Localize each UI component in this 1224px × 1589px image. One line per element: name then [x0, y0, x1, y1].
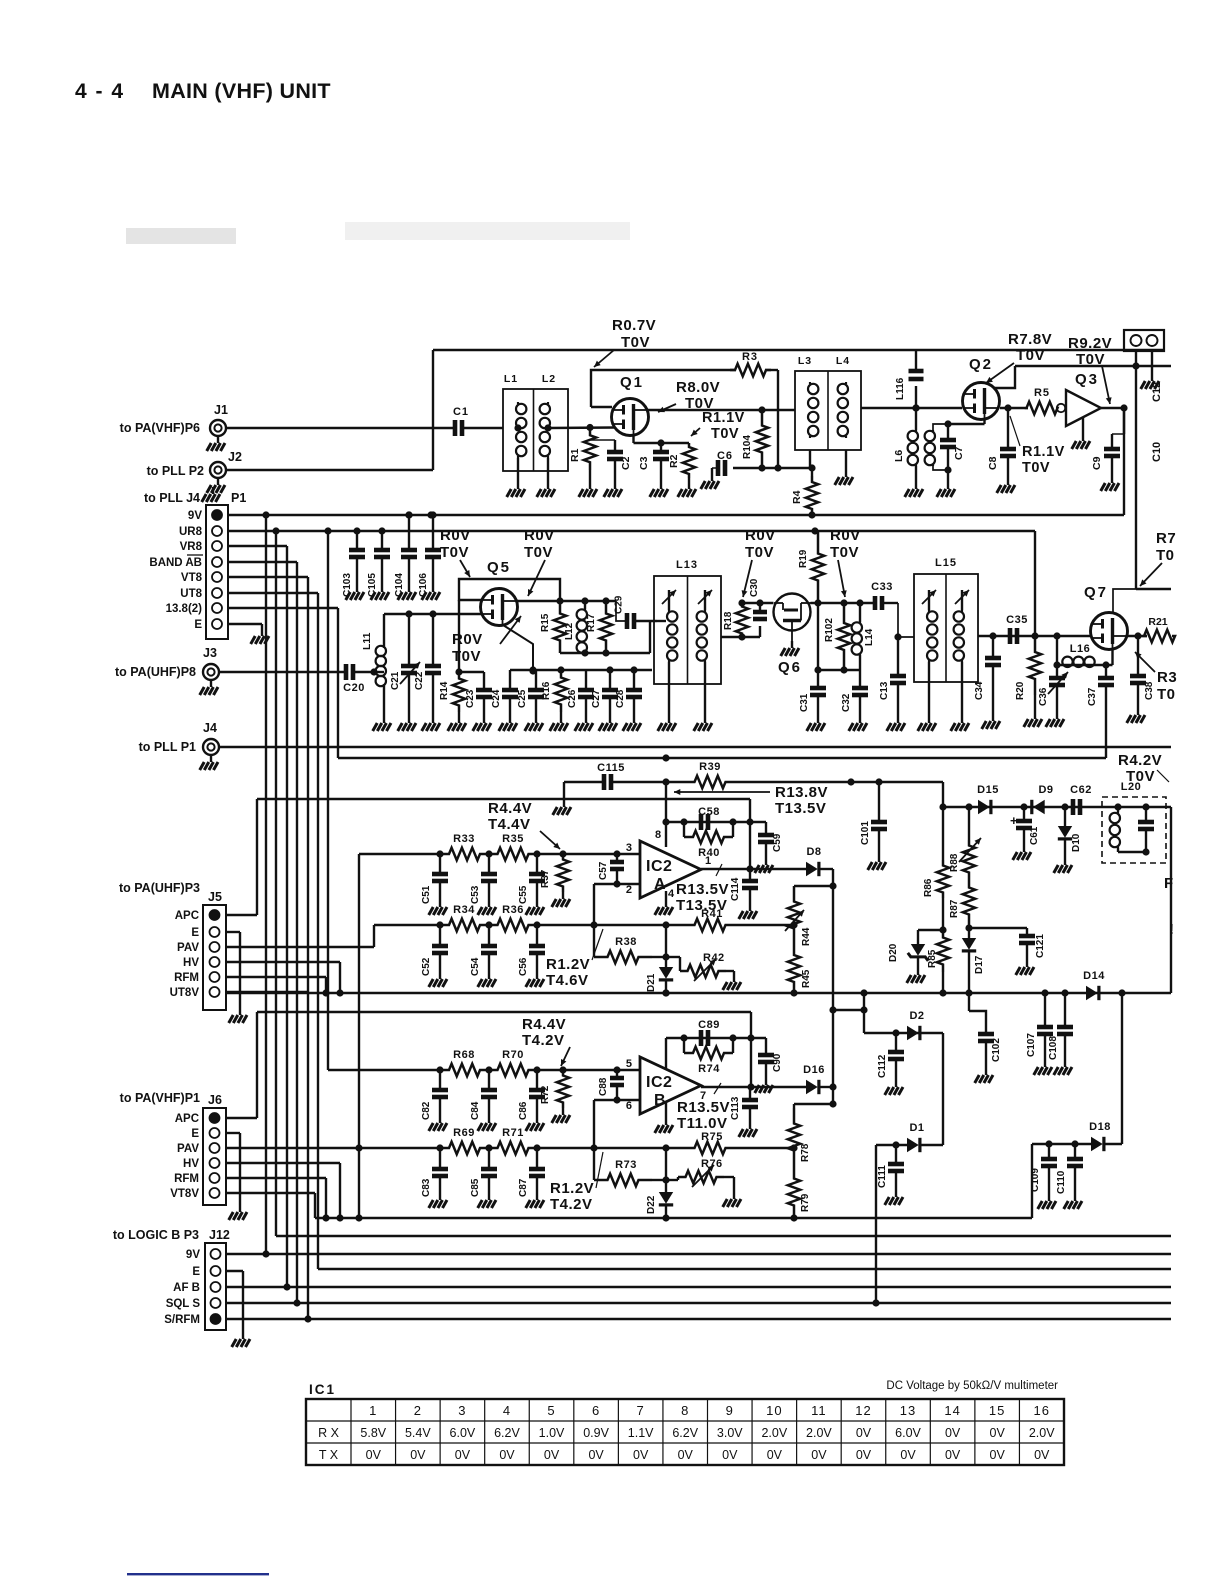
svg-text:J3: J3 [203, 646, 217, 660]
resistor R3 [730, 351, 771, 376]
svg-text:4: 4 [668, 888, 675, 900]
svg-text:6.0V: 6.0V [895, 1426, 921, 1440]
svg-text:L116: L116 [895, 377, 906, 400]
wire rail 782 [553, 782, 604, 815]
voltage label R0.7V [594, 317, 656, 367]
svg-text:C59: C59 [772, 833, 783, 852]
capacitor C115 [597, 762, 625, 790]
capacitor C27 [591, 670, 618, 731]
svg-text:D1: D1 [909, 1122, 924, 1134]
wire BANDAB [228, 561, 297, 563]
diode D21 [646, 921, 673, 996]
svg-text:C31: C31 [799, 693, 810, 712]
voltage label R13.8V [674, 784, 828, 817]
wire [432, 350, 434, 470]
J6 pin HV [183, 1158, 219, 1170]
P1 pin VR8 [180, 541, 222, 553]
svg-text:R34: R34 [453, 904, 475, 916]
svg-text:9: 9 [726, 1403, 734, 1418]
capacitor C37 [1087, 665, 1114, 758]
svg-text:to PA(VHF)P6: to PA(VHF)P6 [120, 421, 200, 435]
capacitor C61 [1010, 807, 1040, 860]
resistor R21 [1144, 616, 1175, 642]
svg-text:C103: C103 [342, 573, 353, 597]
svg-text:SQL S: SQL S [166, 1298, 201, 1310]
svg-text:J5: J5 [208, 890, 222, 904]
bus to IC2B [327, 531, 329, 1070]
wire [1031, 1144, 1033, 1218]
diode D15 [977, 784, 999, 814]
capacitor C3 [638, 443, 669, 497]
inductor L12 [564, 601, 587, 653]
connector P1 [144, 487, 246, 639]
wire Q7 gate2 [1113, 589, 1171, 613]
svg-text:AF B: AF B [173, 1282, 200, 1294]
resistor R39 [680, 761, 740, 788]
svg-text:2.0V: 2.0V [1029, 1426, 1055, 1440]
wire [740, 778, 943, 785]
svg-text:C101: C101 [860, 821, 871, 845]
svg-text:J6: J6 [208, 1093, 222, 1107]
buffer Q3 [1057, 371, 1101, 449]
wire J12 SQLS [226, 1299, 1171, 1306]
resistor R17 [586, 601, 612, 653]
svg-text:C105: C105 [367, 573, 378, 597]
capacitor C90 [755, 1038, 783, 1093]
wire IC2B in- [590, 1100, 640, 1180]
voltage label R7.8V [986, 331, 1052, 383]
svg-text:R39: R39 [699, 761, 721, 773]
svg-text:9V: 9V [188, 510, 202, 522]
capacitor C26 [567, 670, 594, 731]
svg-text:IC2: IC2 [646, 1074, 672, 1091]
svg-text:L14: L14 [864, 628, 875, 646]
wire Q7 source [1111, 648, 1113, 665]
svg-text:L11: L11 [361, 632, 373, 650]
svg-text:R37: R37 [540, 869, 551, 888]
wire rail 1218 [315, 1217, 1032, 1219]
capacitor C104 [394, 511, 417, 600]
zener D20 [888, 930, 943, 983]
svg-text:5: 5 [626, 1058, 632, 1070]
capacitor C102 [969, 993, 1002, 1083]
svg-text:T4.2V: T4.2V [522, 1032, 565, 1049]
wire [1000, 404, 1028, 411]
voltage label R4.4V A [488, 800, 560, 849]
capacitor C38 [1127, 636, 1155, 723]
J5 pin PAV [177, 942, 219, 954]
wire [863, 993, 865, 1033]
svg-text:C115: C115 [597, 762, 625, 774]
svg-text:R13.5V: R13.5V [677, 1099, 730, 1116]
wire IC2A pin4 gnd [655, 891, 673, 915]
svg-text:RFM: RFM [174, 972, 199, 984]
svg-text:C57: C57 [598, 861, 609, 880]
svg-text:R0V: R0V [524, 527, 555, 544]
wire rail 993 [226, 989, 1171, 996]
J5 pin RFM [174, 972, 219, 984]
svg-text:C82: C82 [421, 1101, 432, 1120]
bus line [276, 1235, 1171, 1237]
svg-text:D17: D17 [974, 955, 985, 974]
inductor L14 [852, 603, 875, 670]
wire J5 PAV [226, 946, 374, 948]
J12 pin 9V [186, 1249, 221, 1261]
svg-text:C107: C107 [1026, 1033, 1037, 1057]
wire [965, 924, 972, 938]
connector J12 [113, 1228, 230, 1330]
svg-text:3.0V: 3.0V [717, 1426, 743, 1440]
capacitor C113 [730, 1087, 758, 1137]
svg-text:L13: L13 [676, 559, 698, 571]
resistor R33 [440, 833, 489, 860]
svg-text:RFM: RFM [174, 1173, 199, 1185]
voltage label R0V b [524, 527, 555, 596]
svg-text:R42: R42 [703, 952, 725, 964]
svg-text:C7: C7 [953, 446, 965, 460]
wire APC rail B [257, 1012, 751, 1118]
svg-text:C83: C83 [421, 1178, 432, 1197]
diode D14 [1083, 970, 1105, 1000]
svg-text:E: E [191, 1128, 199, 1140]
svg-text:C23: C23 [465, 689, 476, 708]
table cells [318, 1403, 1055, 1462]
resistor R87 [949, 878, 975, 924]
svg-text:E: E [191, 927, 199, 939]
svg-text:R71: R71 [502, 1127, 524, 1139]
capacitor C9 [1091, 408, 1124, 491]
capacitor C20 [343, 664, 377, 694]
wire J5 E gnd [226, 932, 247, 1023]
transistor Q2 [963, 356, 1000, 420]
wire corner 782-807 [942, 782, 944, 807]
svg-text:13.8(2): 13.8(2) [166, 603, 203, 615]
svg-text:7: 7 [637, 1403, 645, 1418]
svg-text:C113: C113 [730, 1096, 741, 1120]
cut text excl [1169, 921, 1174, 938]
wire L16 net [1053, 636, 1112, 669]
svg-text:VR8: VR8 [180, 541, 203, 553]
svg-text:R74: R74 [698, 1063, 720, 1075]
svg-text:R14: R14 [439, 681, 450, 700]
capacitor C51 [421, 850, 448, 915]
svg-text:R69: R69 [453, 1127, 475, 1139]
svg-text:Q5: Q5 [487, 559, 511, 576]
svg-text:R45: R45 [801, 969, 812, 988]
svg-text:D22: D22 [646, 1195, 657, 1214]
svg-text:T4.4V: T4.4V [488, 816, 531, 833]
svg-text:to PA(UHF)P8: to PA(UHF)P8 [115, 665, 196, 679]
wire fb [662, 818, 766, 825]
voltage label R0V c [452, 616, 521, 665]
svg-text:DC Voltage by 50kΩ/V multimete: DC Voltage by 50kΩ/V multimeter [886, 1380, 1058, 1392]
svg-text:T4.6V: T4.6V [546, 972, 589, 989]
wire fb to out B [747, 1038, 754, 1091]
svg-text:2.0V: 2.0V [806, 1426, 832, 1440]
svg-text:D14: D14 [1083, 970, 1105, 982]
svg-text:0.9V: 0.9V [583, 1426, 609, 1440]
svg-text:0V: 0V [856, 1448, 872, 1462]
svg-text:C102: C102 [991, 1038, 1002, 1062]
capacitor C1 [453, 406, 503, 436]
transistor Q7 [1084, 584, 1128, 650]
svg-text:D10: D10 [1071, 833, 1082, 852]
svg-text:L6: L6 [893, 450, 905, 462]
wire gate1 Q5 [384, 610, 481, 617]
wire J5 APC [226, 914, 257, 916]
capacitor C121 [969, 928, 1046, 975]
resistor R72 [540, 1070, 570, 1123]
svg-text:T0V: T0V [830, 544, 859, 561]
svg-text:C56: C56 [518, 957, 529, 976]
voltage label R1.1V Q1 [691, 410, 745, 442]
svg-text:R13.8V: R13.8V [775, 784, 828, 801]
svg-text:1.0V: 1.0V [539, 1426, 565, 1440]
capacitor C87 [518, 1144, 545, 1208]
svg-text:J2: J2 [228, 450, 242, 464]
wire VR8 [228, 545, 287, 547]
svg-text:R4.4V: R4.4V [522, 1016, 566, 1033]
J12 pin E [192, 1266, 220, 1278]
svg-text:0V: 0V [499, 1448, 515, 1462]
resistor R16 [541, 670, 568, 731]
resistor R104 [742, 410, 768, 468]
wire [875, 1145, 877, 1303]
wire [740, 1144, 798, 1151]
svg-text:R4.2V: R4.2V [1118, 752, 1162, 769]
svg-text:C52: C52 [421, 957, 432, 976]
svg-text:L2: L2 [542, 373, 556, 385]
svg-text:R104: R104 [742, 435, 753, 459]
capacitor C53 [470, 850, 497, 915]
svg-text:BAND AB: BAND AB [149, 557, 202, 569]
svg-text:C28: C28 [615, 689, 626, 708]
capacitor C30 [749, 578, 767, 637]
table IC1 label [309, 1382, 336, 1397]
capacitor C29 [614, 595, 658, 629]
wire IC2B fb in [439, 1147, 441, 1149]
svg-text:T0V: T0V [621, 334, 650, 351]
svg-text:VT8V: VT8V [170, 1188, 199, 1200]
bus 13.8 [337, 608, 339, 758]
svg-text:C9: C9 [1091, 456, 1103, 470]
J6 pin PAV [177, 1143, 219, 1155]
svg-text:L12: L12 [564, 622, 575, 640]
svg-text:C30: C30 [749, 578, 760, 597]
resistor R44 [785, 886, 833, 946]
svg-text:C25: C25 [517, 689, 528, 708]
inductor L6 [893, 404, 952, 497]
wire D15 row [939, 803, 1102, 810]
svg-text:T0: T0 [1156, 547, 1175, 564]
svg-text:6.2V: 6.2V [494, 1426, 520, 1440]
capacitor C28 [615, 670, 642, 731]
wire [1121, 993, 1123, 1144]
svg-text:C86: C86 [518, 1101, 529, 1120]
svg-text:R72: R72 [540, 1085, 551, 1104]
svg-text:C104: C104 [394, 573, 405, 597]
resistor R36 [489, 904, 537, 931]
svg-text:C10: C10 [1151, 442, 1163, 462]
wire pin gnd [1141, 351, 1159, 389]
wire [740, 921, 798, 928]
J6 pin E [191, 1128, 219, 1140]
resistor R86 [923, 807, 949, 898]
connector 2pin [1124, 330, 1164, 351]
capacitor C57 [598, 854, 624, 888]
capacitor C13 [879, 637, 906, 731]
svg-text:to PLL J4: to PLL J4 [144, 491, 200, 505]
svg-text:4: 4 [503, 1403, 511, 1418]
svg-text:Q2: Q2 [969, 356, 993, 373]
svg-text:C108: C108 [1048, 1036, 1059, 1060]
svg-text:C20: C20 [343, 682, 365, 694]
svg-text:6: 6 [592, 1403, 600, 1418]
svg-text:R102: R102 [824, 618, 835, 642]
svg-text:R16: R16 [541, 681, 552, 700]
wire J5 UT8V [226, 991, 308, 993]
resistor R18 [723, 603, 748, 637]
connector J4 [139, 721, 433, 770]
svg-text:0V: 0V [588, 1448, 604, 1462]
P1 pin 9V [188, 510, 222, 522]
capacitor C56 [518, 921, 545, 987]
footer rule [127, 1573, 269, 1575]
svg-text:J4: J4 [203, 721, 217, 735]
capacitor C23 [465, 672, 492, 731]
op-amp IC2 A [626, 829, 711, 900]
wire VT8 [228, 576, 308, 578]
capacitor C83 [421, 1144, 448, 1208]
svg-text:C29: C29 [614, 595, 625, 614]
resistor R20 [1015, 636, 1042, 727]
svg-text:C36: C36 [1038, 687, 1049, 706]
svg-text:!: ! [1169, 921, 1174, 938]
svg-text:R0V: R0V [452, 631, 483, 648]
wire gate Q6 [738, 599, 773, 606]
svg-text:L15: L15 [935, 557, 957, 569]
svg-text:R3: R3 [1157, 669, 1177, 686]
svg-text:16: 16 [1033, 1403, 1049, 1418]
svg-text:T0V: T0V [524, 544, 553, 561]
capacitor C55 [518, 850, 545, 915]
svg-text:5: 5 [547, 1403, 555, 1418]
wire gate2 up [993, 366, 1015, 388]
wire [611, 778, 680, 785]
capacitor C52 [421, 921, 448, 987]
wire [820, 869, 868, 1108]
svg-text:0V: 0V [366, 1448, 382, 1462]
svg-text:R2: R2 [668, 454, 680, 468]
svg-text:0V: 0V [455, 1448, 471, 1462]
svg-text:R38: R38 [615, 936, 637, 948]
voltage label R1.1V [1010, 416, 1065, 476]
svg-text:T13.5V: T13.5V [775, 800, 826, 817]
svg-text:D15: D15 [977, 784, 999, 796]
svg-text:R78: R78 [800, 1143, 811, 1162]
table grid [306, 1399, 1064, 1465]
svg-text:R0.7V: R0.7V [612, 317, 656, 334]
svg-text:3: 3 [458, 1403, 466, 1418]
capacitor C35 [1006, 614, 1028, 644]
capacitor C58 [698, 806, 720, 830]
svg-text:0V: 0V [678, 1448, 694, 1462]
svg-text:T0: T0 [1157, 686, 1176, 703]
J12 pin SQL S [166, 1298, 221, 1310]
voltage label R1.2V B [550, 1152, 603, 1213]
wire UR8 drop [1034, 531, 1036, 636]
transformer L1 L2 [503, 373, 615, 497]
svg-text:L3: L3 [798, 355, 812, 367]
svg-text:R33: R33 [453, 833, 475, 845]
P1 pin BAND AB [149, 557, 222, 569]
svg-text:R1.2V: R1.2V [546, 956, 590, 973]
resistor R70 [489, 1049, 537, 1076]
capacitor C88 [598, 1070, 624, 1104]
svg-text:C1: C1 [453, 406, 469, 418]
bus BANDAB [293, 562, 300, 1307]
svg-text:C90: C90 [772, 1053, 783, 1072]
svg-text:C89: C89 [698, 1019, 720, 1031]
svg-text:P1: P1 [231, 491, 246, 505]
svg-text:HV: HV [183, 1158, 199, 1170]
svg-text:HV: HV [183, 957, 199, 969]
svg-text:4 - 4: 4 - 4 [75, 80, 125, 103]
svg-text:C88: C88 [598, 1077, 609, 1096]
svg-text:Q1: Q1 [620, 374, 644, 391]
wire J12 S/RFM [226, 1318, 1171, 1320]
svg-text:D9: D9 [1038, 784, 1053, 796]
transformer L13 [654, 559, 721, 731]
voltage label R8.0V [658, 379, 720, 412]
svg-text:T X: T X [319, 1448, 339, 1462]
svg-text:R21: R21 [1148, 616, 1167, 628]
transistor Q1 [612, 374, 649, 436]
svg-text:R1.2V: R1.2V [550, 1180, 594, 1197]
svg-text:2.0V: 2.0V [761, 1426, 787, 1440]
voltage label R7x [1140, 530, 1176, 586]
svg-text:+: + [1010, 813, 1018, 828]
svg-text:UT8V: UT8V [170, 987, 200, 999]
voltage label R3x [1135, 652, 1177, 703]
svg-text:C21: C21 [390, 671, 401, 690]
wire D2 row [864, 1029, 943, 1036]
svg-text:R17: R17 [586, 613, 597, 632]
P1 pin UR8 [179, 526, 222, 538]
capacitor C107 [1026, 993, 1053, 1075]
wire IC2A pin8 [665, 782, 667, 847]
svg-text:UR8: UR8 [179, 526, 203, 538]
wire [820, 1083, 837, 1090]
wire J6 VT8V [226, 1193, 315, 1218]
svg-text:R4.4V: R4.4V [488, 800, 532, 817]
svg-text:R40: R40 [698, 847, 720, 859]
diode D22 [646, 1144, 673, 1221]
capacitor C25 [517, 670, 544, 731]
capacitor C2 [591, 440, 632, 497]
svg-text:to PLL P1: to PLL P1 [139, 740, 196, 754]
bus UR8 branch [275, 531, 277, 1236]
wire bias node [733, 464, 816, 471]
wire APC rail A [257, 799, 750, 915]
svg-text:C87: C87 [518, 1178, 529, 1197]
svg-text:C2: C2 [620, 456, 632, 470]
wire source [634, 434, 690, 447]
J6 pin APC [175, 1113, 220, 1125]
wire fb to out [746, 822, 753, 873]
wire 9V rail [228, 511, 1124, 518]
resistor R71 [489, 1127, 537, 1154]
